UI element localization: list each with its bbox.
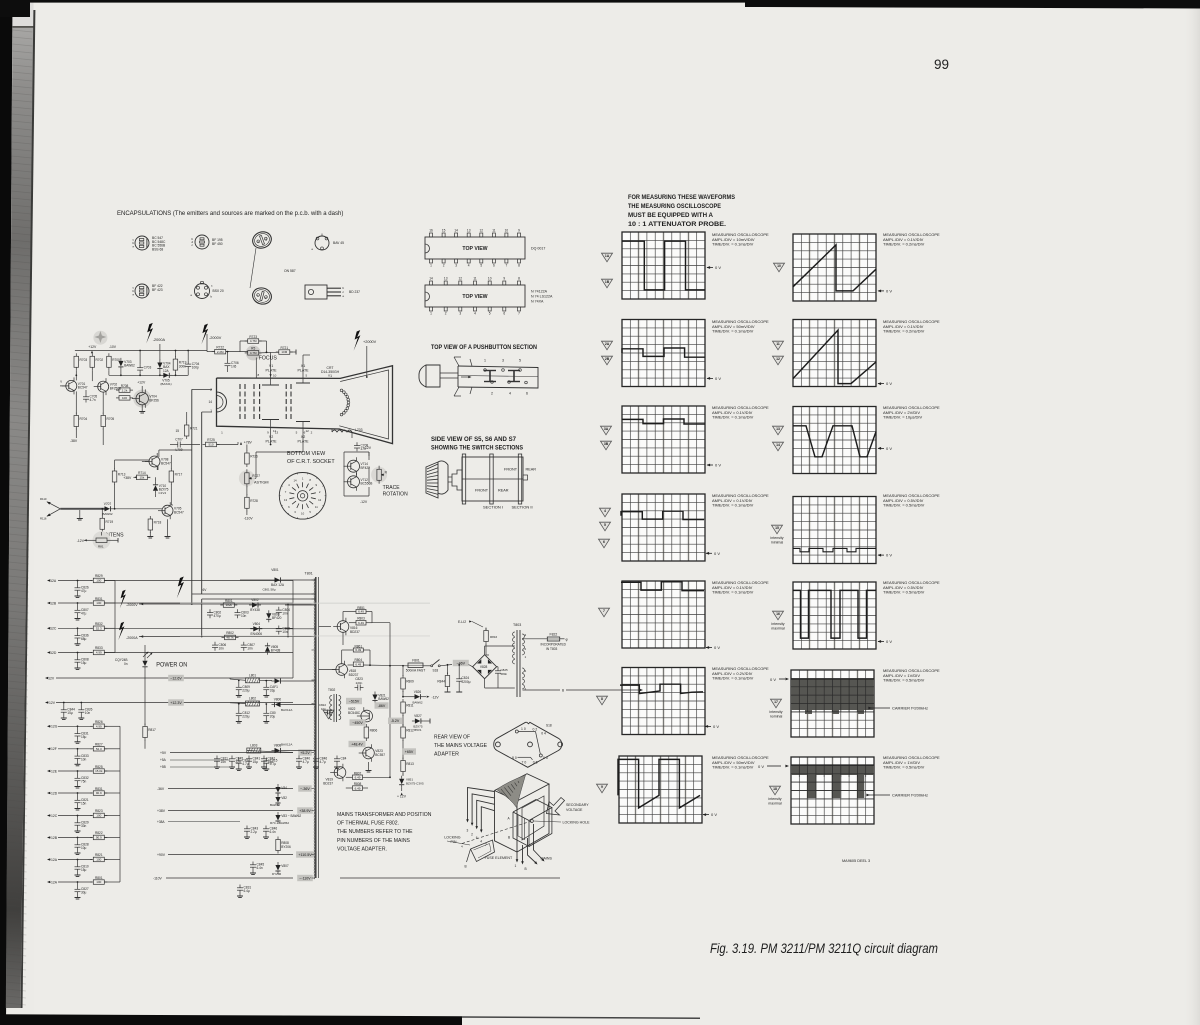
svg-text:TOP VIEW OF A PUSHBUTTON S: TOP VIEW OF A PUSHBUTTON SECTION	[431, 344, 537, 351]
svg-text:L802: L802	[249, 697, 256, 701]
capacitor C704	[187, 361, 189, 364]
svg-text:100: 100	[96, 880, 101, 884]
R708 boxes	[119, 388, 130, 393]
secondary bobbin frame	[513, 800, 552, 821]
R721 resistor lower	[184, 425, 189, 436]
svg-text:0 V: 0 V	[715, 376, 721, 381]
svg-text:33n: 33n	[81, 824, 87, 828]
svg-text:V826: V826	[414, 690, 422, 694]
svg-text:-5.2V: -5.2V	[391, 719, 400, 723]
svg-text:R817: R817	[148, 728, 156, 732]
svg-text:0 5: 0 5	[543, 756, 548, 760]
svg-text:1B: 1B	[605, 280, 610, 284]
switch side view drawing	[426, 461, 448, 498]
svg-text:2: 2	[471, 833, 473, 837]
svg-text:1 0: 1 0	[521, 727, 526, 731]
svg-text:nominal: nominal	[770, 715, 783, 719]
svg-text:0 V: 0 V	[714, 551, 720, 556]
encapsulation BAV45	[315, 236, 329, 250]
svg-text:2B: 2B	[605, 357, 610, 361]
svg-text:~450V: ~450V	[352, 721, 363, 725]
svg-text:-86V: -86V	[378, 704, 386, 708]
svg-text:R116: R116	[40, 517, 47, 521]
svg-text:TRACE: TRACE	[383, 485, 401, 491]
svg-text:15k: 15k	[139, 476, 144, 480]
svg-text:ADAPTER: ADAPTER	[434, 752, 459, 758]
svg-text:R844: R844	[437, 680, 445, 684]
svg-text:10n: 10n	[219, 646, 225, 650]
svg-text:+12V: +12V	[137, 381, 146, 385]
scope grid R6	[791, 670, 874, 737]
svg-text:R801: R801	[95, 876, 103, 880]
svg-text:52.3: 52.3	[96, 747, 102, 751]
svg-text:TIME/DIV. = 0.1ms/DIV: TIME/DIV. = 0.1ms/DIV	[712, 590, 754, 595]
svg-text:90.9: 90.9	[96, 791, 102, 795]
CRT tube outline	[217, 366, 393, 444]
svg-text:IN T803: IN T803	[546, 647, 558, 651]
svg-text:-36V: -36V	[157, 787, 165, 791]
svg-text:R825: R825	[95, 765, 103, 769]
svg-text:+5B: +5B	[160, 765, 166, 769]
wires bridge to T803	[484, 646, 486, 655]
svg-text:E-LI2: E-LI2	[458, 620, 466, 624]
svg-text:REAR: REAR	[498, 489, 509, 493]
capacitor C703	[139, 364, 141, 367]
svg-text:3: 3	[467, 829, 469, 833]
wires mid	[114, 485, 116, 509]
svg-text:6.4n: 6.4n	[257, 866, 263, 870]
svg-text:2: 2	[443, 264, 445, 268]
svg-text:15μ: 15μ	[253, 760, 259, 764]
svg-text:R801: R801	[225, 599, 233, 603]
encapsulation BC547 group	[135, 236, 149, 248]
svg-text:7: 7	[603, 609, 605, 613]
encapsulation tilted can lower	[251, 286, 273, 306]
resistor R705	[101, 416, 106, 427]
svg-text:R708: R708	[121, 384, 129, 388]
svg-text:BAX12A: BAX12A	[281, 708, 292, 712]
svg-text:100: 100	[122, 396, 127, 400]
waveform L4 step wave	[621, 511, 704, 519]
focus wiring	[207, 351, 215, 353]
transistor V702	[98, 381, 109, 392]
svg-text:15μ: 15μ	[67, 711, 73, 715]
svg-text:ROTATION: ROTATION	[383, 492, 408, 498]
svg-text:33μ: 33μ	[270, 689, 276, 693]
capacitor C706 1n5	[227, 360, 229, 363]
3D transformer left wire bundle	[468, 788, 495, 821]
svg-text:1: 1	[210, 409, 212, 413]
svg-text:+5V: +5V	[160, 751, 167, 755]
R719b	[100, 518, 105, 529]
svg-text:V801: V801	[271, 568, 279, 572]
svg-text:13: 13	[467, 229, 471, 233]
svg-text:15: 15	[442, 229, 446, 233]
svg-text:4.7μ: 4.7μ	[242, 762, 248, 766]
diode network cluster	[223, 603, 234, 608]
plate top wires	[270, 352, 272, 378]
svg-text:BF 423: BF 423	[152, 288, 163, 292]
CRT anode wire +2000V	[354, 330, 361, 351]
svg-text:BF256: BF256	[149, 398, 159, 402]
svg-text:FOCUS: FOCUS	[259, 356, 278, 362]
svg-text:OF C.R.T. SOCKET: OF C.R.T. SOCKET	[287, 459, 335, 465]
svg-text:FOR MEASURING THESE WAVEFORMS: FOR MEASURING THESE WAVEFORMS	[628, 194, 736, 201]
svg-text:BY206: BY206	[281, 845, 291, 849]
zener V851	[399, 779, 404, 785]
svg-text:R704: R704	[80, 417, 88, 421]
svg-text:3: 3	[502, 359, 504, 363]
svg-text:R721: R721	[280, 346, 288, 350]
svg-text:~46V: ~46V	[457, 661, 466, 665]
diode V827 zener	[415, 718, 421, 723]
svg-text:1: 1	[484, 359, 486, 363]
svg-text:T801: T801	[305, 572, 313, 576]
svg-text:10 : 1 ATTENUATOR PROBE.: 10 : 1 ATTENUATOR PROBE.	[628, 221, 726, 228]
coil L703	[332, 430, 352, 432]
svg-text:~515V: ~515V	[349, 699, 360, 703]
svg-text:6.49: 6.49	[355, 776, 361, 780]
bolt -2000A top	[146, 323, 153, 344]
svg-text:9: 9	[601, 785, 603, 789]
svg-text:-38V: -38V	[70, 439, 78, 443]
transistor V714	[348, 460, 360, 472]
svg-text:R803: R803	[357, 617, 365, 621]
svg-text:+12V: +12V	[88, 345, 97, 349]
scope grid R4	[793, 497, 876, 564]
svg-text:10M: 10M	[281, 350, 287, 354]
secondary voltage arrow	[547, 798, 565, 816]
resistor R723 4.7M	[248, 339, 259, 344]
T801 taps	[312, 579, 314, 581]
svg-text:V707: V707	[104, 502, 112, 506]
svg-text:TIME/DIV. = 0.1ms/DIV: TIME/DIV. = 0.1ms/DIV	[712, 676, 754, 681]
adapter rear view TO-3 diamond	[494, 722, 562, 767]
svg-text:R74 ~ BAW62: R74 ~ BAW62	[270, 821, 289, 825]
svg-text:5: 5	[604, 523, 606, 527]
svg-text:TIME/DIV. = 0.1ms/DIV: TIME/DIV. = 0.1ms/DIV	[712, 415, 754, 420]
svg-text:VOLTAGE: VOLTAGE	[566, 808, 583, 812]
svg-text:48.7k: 48.7k	[226, 636, 234, 640]
bolt at cable bottom	[177, 577, 184, 599]
svg-text:LOCKING: LOCKING	[444, 836, 460, 840]
L801	[246, 678, 260, 683]
svg-text:BC557: BC557	[375, 753, 385, 757]
svg-text:intensity: intensity	[770, 536, 783, 540]
svg-text:R725: R725	[207, 438, 215, 442]
diode V704b BAX12A	[157, 363, 162, 369]
svg-text:L801: L801	[249, 673, 256, 677]
svg-text:8: 8	[518, 277, 520, 281]
svg-text:0 2: 0 2	[533, 727, 538, 731]
svg-text:5: 5	[489, 312, 491, 316]
svg-text:2: 2	[210, 388, 212, 392]
svg-text:1A: 1A	[605, 254, 610, 258]
waveform L1 square wave	[622, 241, 705, 290]
waveform R4 flat with notches	[793, 548, 876, 551]
svg-text:+38V: +38V	[157, 809, 166, 813]
svg-text:SECONDARY: SECONDARY	[566, 803, 589, 807]
trace rotation pot R742	[371, 467, 387, 483]
svg-text:+12E: +12E	[49, 769, 58, 773]
svg-text:F822: F822	[550, 633, 558, 637]
scope grid L6	[622, 668, 705, 735]
svg-text:BF 450: BF 450	[212, 242, 223, 246]
R817	[143, 727, 148, 738]
waveform L2 step wave	[622, 348, 705, 357]
ground under FET	[141, 405, 143, 409]
bridge rectifier V828	[473, 655, 497, 679]
R808 BY206	[276, 840, 281, 851]
svg-text:R802: R802	[226, 631, 234, 635]
caps under L803	[238, 758, 240, 761]
svg-text:220μ: 220μ	[242, 689, 249, 693]
svg-text:BC548C: BC548C	[348, 711, 361, 715]
pushbutton drawing	[419, 365, 440, 387]
svg-text:10n: 10n	[85, 711, 91, 715]
svg-text:F801: F801	[412, 659, 420, 663]
svg-text:V828: V828	[480, 665, 488, 669]
svg-text:DY206: DY206	[272, 872, 282, 876]
svg-text:R816: R816	[490, 635, 498, 639]
svg-text:FRONT: FRONT	[504, 468, 518, 472]
svg-text:Y1: Y1	[328, 374, 332, 378]
svg-text:B: B	[525, 867, 527, 871]
svg-text:+12B: +12B	[49, 836, 58, 840]
waveform R5 deep pulses	[793, 590, 876, 638]
svg-text:6: 6	[493, 264, 495, 268]
svg-text:0 V: 0 V	[715, 265, 721, 270]
resistor R721 10M	[279, 350, 290, 355]
svg-text:8: 8	[518, 264, 520, 268]
svg-text:2: 2	[445, 312, 447, 316]
svg-text:0 V: 0 V	[886, 553, 892, 558]
svg-text:1: 1	[515, 864, 517, 868]
svg-text:R81: R81	[98, 545, 104, 549]
diode V705 BAX21	[163, 373, 169, 378]
svg-text:52.3: 52.3	[96, 627, 102, 631]
svg-text:R822: R822	[95, 831, 103, 835]
svg-text:4: 4	[480, 840, 482, 844]
svg-text:maximal: maximal	[771, 627, 785, 631]
svg-text:+12C: +12C	[49, 814, 58, 818]
svg-text:4.7μ: 4.7μ	[303, 760, 309, 764]
C843 / C845 bottom caps	[246, 826, 248, 829]
svg-text:99: 99	[934, 57, 949, 72]
svg-text:11: 11	[492, 229, 496, 233]
transistor V823	[363, 747, 375, 759]
svg-text:POWER ON: POWER ON	[156, 662, 187, 669]
svg-text:V804: V804	[253, 622, 261, 626]
resistor chain R809 R811 R812 R813	[401, 678, 406, 689]
svg-text:1: 1	[430, 312, 432, 316]
svg-text:10: 10	[505, 229, 509, 233]
svg-text:R721: R721	[190, 427, 198, 431]
svg-text:0 V: 0 V	[714, 645, 720, 650]
wires upper amp	[75, 370, 77, 380]
svg-text:ON 587: ON 587	[284, 269, 296, 273]
svg-text:R806: R806	[370, 729, 378, 733]
svg-text:N 74 LS122A: N 74 LS122A	[531, 295, 553, 299]
svg-text:-110V: -110V	[153, 877, 163, 881]
svg-text:R702: R702	[96, 358, 104, 362]
IC top view TOP VIEW N 74122A	[425, 285, 525, 307]
voltage callouts regulator	[346, 698, 362, 704]
svg-text:13: 13	[284, 498, 288, 502]
svg-text:12: 12	[459, 277, 463, 281]
svg-text:12: 12	[480, 229, 484, 233]
svg-text:4.7μ: 4.7μ	[320, 760, 326, 764]
R714 15k	[136, 475, 147, 480]
svg-text:T802: T802	[328, 688, 335, 692]
svg-text:7: 7	[506, 264, 508, 268]
faint scan streaks	[180, 603, 430, 605]
svg-text:4.99: 4.99	[96, 725, 102, 729]
callout +65V	[402, 748, 416, 754]
svg-text:intensity: intensity	[768, 797, 781, 801]
svg-text:15μ: 15μ	[81, 868, 87, 872]
svg-text:TIME/DIV. = 0.2ms/DIV: TIME/DIV. = 0.2ms/DIV	[883, 329, 925, 334]
svg-text:R110: R110	[40, 497, 47, 501]
svg-text:BAX12A: BAX12A	[281, 743, 292, 747]
scope grid R1	[793, 234, 876, 301]
waveform L6 sloped steps	[620, 684, 703, 693]
svg-text:R5: R5	[251, 347, 255, 351]
svg-text:CARRIER f≈200kHz: CARRIER f≈200kHz	[892, 706, 928, 711]
svg-text:PIN NUMBERS OF THE MAINS: PIN NUMBERS OF THE MAINS	[337, 838, 411, 844]
svg-text:+78V: +78V	[244, 441, 253, 445]
R718	[148, 519, 153, 530]
svg-text:+12A: +12A	[49, 858, 58, 862]
svg-text:14: 14	[776, 443, 780, 447]
3D transformer coil shading	[497, 775, 526, 808]
svg-text:+38.9V: +38.9V	[299, 809, 311, 813]
svg-text:intensity: intensity	[771, 622, 784, 626]
svg-text:+48.4V: +48.4V	[351, 742, 363, 746]
svg-text:BY438: BY438	[271, 648, 281, 652]
waveform L5 top steps	[621, 582, 704, 591]
scope grid L2	[622, 320, 705, 387]
waveform R7 carrier pulses	[791, 765, 874, 798]
svg-text:FRONT: FRONT	[475, 489, 489, 493]
svg-text:-12V: -12V	[432, 696, 440, 700]
bolt -2000V left	[201, 324, 208, 345]
svg-text:intensity: intensity	[769, 710, 782, 714]
svg-text:MAINS TRANSFORMER AND POSITION: MAINS TRANSFORMER AND POSITION	[337, 812, 432, 818]
svg-text:4.7M: 4.7M	[250, 339, 257, 343]
svg-text:THE NUMBERS REFER TO THE: THE NUMBERS REFER TO THE	[337, 829, 413, 835]
svg-text:500mA FAST: 500mA FAST	[406, 669, 425, 673]
svg-text:R832: R832	[95, 622, 103, 626]
callout +48.4V	[349, 741, 366, 747]
encapsulation tilted can upper	[250, 229, 273, 251]
svg-text:R823: R823	[95, 809, 103, 813]
svg-text:100: 100	[96, 858, 101, 862]
svg-text:11: 11	[776, 342, 780, 346]
svg-text:BAW62: BAW62	[412, 701, 422, 705]
svg-text:2A: 2A	[605, 342, 610, 346]
svg-text:10n: 10n	[321, 707, 326, 711]
CRT helix dots	[340, 389, 343, 392]
svg-text:13: 13	[444, 277, 448, 281]
svg-text:9: 9	[503, 277, 505, 281]
svg-text:BSX 20: BSX 20	[213, 289, 224, 293]
scope grid L5	[622, 581, 705, 648]
svg-text:10n: 10n	[241, 614, 247, 618]
svg-text:11: 11	[473, 277, 477, 281]
svg-text:4: 4	[604, 509, 606, 513]
svg-text:300k: 300k	[179, 365, 186, 369]
svg-text:R813: R813	[406, 762, 414, 766]
svg-text:4: 4	[474, 312, 476, 316]
svg-text:2.2k: 2.2k	[122, 388, 128, 392]
resistor R722 2.2M	[215, 349, 226, 354]
svg-text:REAR VIEW OF: REAR VIEW OF	[434, 735, 471, 741]
resistor R702	[90, 356, 95, 367]
svg-text:17: 17	[774, 700, 778, 704]
svg-text:R728: R728	[250, 499, 258, 503]
svg-text:R717: R717	[175, 473, 183, 477]
svg-text:BC547: BC547	[78, 386, 88, 390]
svg-text:3A: 3A	[604, 427, 609, 431]
svg-text:+12D: +12D	[49, 791, 58, 795]
callout -5.2V	[388, 718, 402, 724]
svg-text:382k: 382k	[226, 603, 233, 607]
svg-text:V800: V800	[274, 698, 282, 702]
svg-text:8 0: 8 0	[512, 756, 517, 760]
svg-text:-110V: -110V	[244, 517, 254, 521]
diode V826 to -12V	[415, 694, 421, 699]
svg-text:10n: 10n	[247, 646, 253, 650]
svg-text:N 74122A: N 74122A	[531, 290, 548, 294]
svg-text:R812: R812	[406, 729, 414, 733]
astigm pot R727	[239, 470, 255, 486]
svg-text:6: 6	[526, 392, 528, 396]
svg-text:30μ: 30μ	[81, 891, 87, 895]
svg-text:MA9605 DEEL 3: MA9605 DEEL 3	[842, 859, 870, 863]
svg-text:TIME/DIV. = 0.2ms/DIV: TIME/DIV. = 0.2ms/DIV	[883, 242, 925, 247]
test point markers left column	[602, 253, 613, 262]
svg-text:TOP VIEW: TOP VIEW	[462, 294, 487, 300]
svg-text:R703: R703	[80, 358, 88, 362]
svg-text:+5.2V: +5.2V	[300, 751, 310, 755]
svg-text:14: 14	[454, 229, 458, 233]
svg-text:-2000V: -2000V	[126, 603, 138, 607]
svg-text:6.4n: 6.4n	[270, 830, 276, 834]
svg-text:TIME/DIV. = 0.1ms/DIV: TIME/DIV. = 0.1ms/DIV	[712, 765, 754, 770]
scope grid L7	[619, 756, 702, 823]
svg-text:BAW62: BAW62	[270, 803, 280, 807]
svg-text:0 V: 0 V	[886, 288, 892, 293]
svg-text:6.49: 6.49	[355, 648, 361, 652]
CRT socket arc	[217, 392, 227, 412]
svg-text:14: 14	[429, 277, 433, 281]
switch S18	[423, 665, 431, 667]
svg-text:+12A: +12A	[49, 880, 58, 884]
waveform R1 ramp	[793, 245, 876, 291]
svg-text:470μ: 470μ	[214, 614, 221, 618]
svg-text:B5V1: B5V1	[414, 728, 422, 732]
scope grid R2	[793, 320, 876, 387]
resistor R704	[74, 416, 79, 427]
svg-text:100: 100	[96, 814, 101, 818]
R726	[245, 453, 250, 464]
svg-text:14: 14	[293, 478, 297, 482]
svg-text:+90V: +90V	[157, 853, 166, 857]
svg-text:0 6: 0 6	[533, 760, 538, 764]
svg-text:~12.6V: ~12.6V	[170, 676, 182, 680]
svg-text:BD 237: BD 237	[349, 290, 360, 294]
